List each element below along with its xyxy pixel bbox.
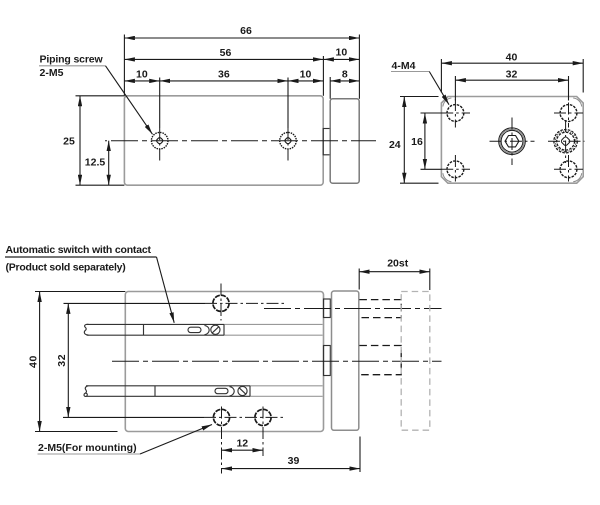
dimension 32 (top view) [67,303,69,417]
corner fillet arc top-right [573,98,582,107]
end cap [330,99,359,183]
extension line cap right [358,35,360,99]
corner fillet arc bottom-right [573,173,582,182]
piston rod extended (dashed) [359,346,401,375]
piston rod center hole rings [499,128,526,155]
svg-text:24: 24 [389,139,401,151]
extension line cap left [329,77,331,99]
guide rod extended (dashed) [359,300,401,318]
guide rod centerline [264,308,442,310]
piston rod hex socket [505,136,519,147]
svg-text:8: 8 [342,68,348,80]
rod tab bottom (piston) [324,346,331,376]
extension line top edge left [76,95,125,97]
dimension 12.5 [108,141,110,186]
piping hole 2 vertical centerline [287,78,289,129]
extension line top view bottom [35,431,118,433]
svg-text:Automatic switch with contact: Automatic switch with contact [6,244,152,256]
body outline [124,96,323,185]
extension line end body right [582,59,584,93]
guide rod inner [561,136,571,146]
plate extended position (light dashed) [401,292,430,431]
svg-text:32: 32 [506,68,518,80]
extension line end bottom [400,182,439,184]
piston rod centerline cross [490,140,535,142]
M4 hole top-right [560,105,577,122]
svg-text:4-M4: 4-M4 [392,60,416,72]
extension line hole col left [454,76,456,101]
svg-text:(Product sold separately): (Product sold separately) [6,261,126,273]
leader arrow switch [157,257,175,323]
auto switch bottom cable break [84,386,88,397]
corner fillet arc top-left [443,98,452,107]
extension line end body left [440,59,442,93]
mounting hole bottom-left [213,409,229,425]
auto switch bottom end arc [230,387,235,397]
svg-text:40: 40 [506,51,518,63]
svg-text:12: 12 [236,438,248,450]
right column vertical centerline [568,82,570,128]
moving plate [332,291,359,430]
piping hole 2 inner [284,137,292,145]
guide rod centerline cross [548,140,585,142]
auto switch top screw [211,325,220,334]
auto switch bottom screw [238,386,247,395]
centerline main axis [105,140,376,142]
auto switch bottom indicator window [215,388,228,393]
svg-text:16: 16 [411,136,423,148]
auto switch top cable break [84,324,88,335]
M4 hole bottom-right [560,161,577,178]
extension line bottom edge left [76,184,125,186]
auto switch top end arc [205,325,210,334]
M4 hole top-left [447,105,464,122]
svg-text:Piping screw: Piping screw [40,54,104,66]
extension line body right top [322,56,324,96]
main centerline (top view) [112,360,442,362]
auto switch top body [87,323,225,325]
leader underline switch [5,256,157,258]
dimension 16 [424,113,426,169]
extension line body left top [123,35,125,96]
extension line end top [400,96,439,98]
leader arrow 4-M4 [429,72,449,105]
svg-text:10: 10 [300,68,312,80]
svg-text:25: 25 [63,135,75,147]
svg-text:12.5: 12.5 [85,157,106,169]
auto switch bottom divider [154,386,156,397]
svg-text:2-M5: 2-M5 [40,67,64,79]
svg-text:40: 40 [27,355,39,368]
dimension 8 [330,80,359,82]
dimension 66 [124,37,359,39]
dimension 36 [160,80,288,82]
corner fillet arc bottom-left [443,173,452,182]
leader arrow mounting [140,425,212,455]
end plate body outline [441,97,583,184]
extension line hole row top [421,112,442,114]
dimension 40 (end) [441,62,583,64]
extension line stroke right [429,269,431,291]
extension line stroke left [358,269,360,290]
dimension 40 (top view) [39,292,41,432]
body outline (top view) [125,292,323,432]
mounting holes horizontal centerline [63,416,204,418]
svg-text:2-M5(For mounting): 2-M5(For mounting) [38,442,137,454]
switch groove top (empty part) [224,323,323,325]
extension line hole top row [64,302,206,304]
rod tab top [324,299,331,318]
svg-text:56: 56 [220,47,232,59]
extension line hole col right [568,76,570,101]
mounting hole bottom-right [255,409,271,425]
switch groove bottom (empty part) [250,385,323,387]
leader underline mounting [38,453,141,455]
auto switch top divider [143,324,145,335]
svg-text:36: 36 [218,68,230,80]
mounting hole top [213,295,229,311]
svg-text:10: 10 [336,47,348,59]
dimension 10 (left hole) [124,80,159,82]
svg-text:10: 10 [136,68,148,80]
dimension 56 [124,58,323,60]
piping hole 1 inner [156,137,164,145]
piping hole 2 thread [280,132,297,149]
piping hole 1 thread [151,132,168,149]
dimension 25 [79,96,81,185]
svg-text:39: 39 [288,455,300,467]
svg-text:66: 66 [240,25,252,37]
piping hole 1 vertical centerline [159,78,161,129]
dimension 20st [359,271,430,273]
svg-text:32: 32 [56,354,68,367]
dimension 10 (right hole) [288,80,323,82]
port tab between body and cap [323,129,330,155]
extension line hole row bottom [421,168,442,170]
svg-text:20st: 20st [387,258,409,270]
dimension 24 [403,97,405,184]
dimension 10 (cap offset) [323,58,359,60]
dimension 12 [222,449,264,451]
auto switch bottom body [86,385,250,387]
M4 hole bottom-left [447,161,464,178]
guide rod hole threaded rings [554,130,577,153]
leader underline 4-M4 [391,71,429,73]
extension line top view top [35,291,125,293]
extension line 39 right [359,437,361,473]
dimension 32 (end) [455,79,568,81]
mounting hole br vertical centerline [262,407,264,457]
leader underline piping [39,65,106,67]
auto switch top indicator window [188,327,201,332]
mounting hole bl vertical centerline [221,407,223,474]
leader arrow piping [106,66,153,135]
dimension 39 [222,468,361,470]
